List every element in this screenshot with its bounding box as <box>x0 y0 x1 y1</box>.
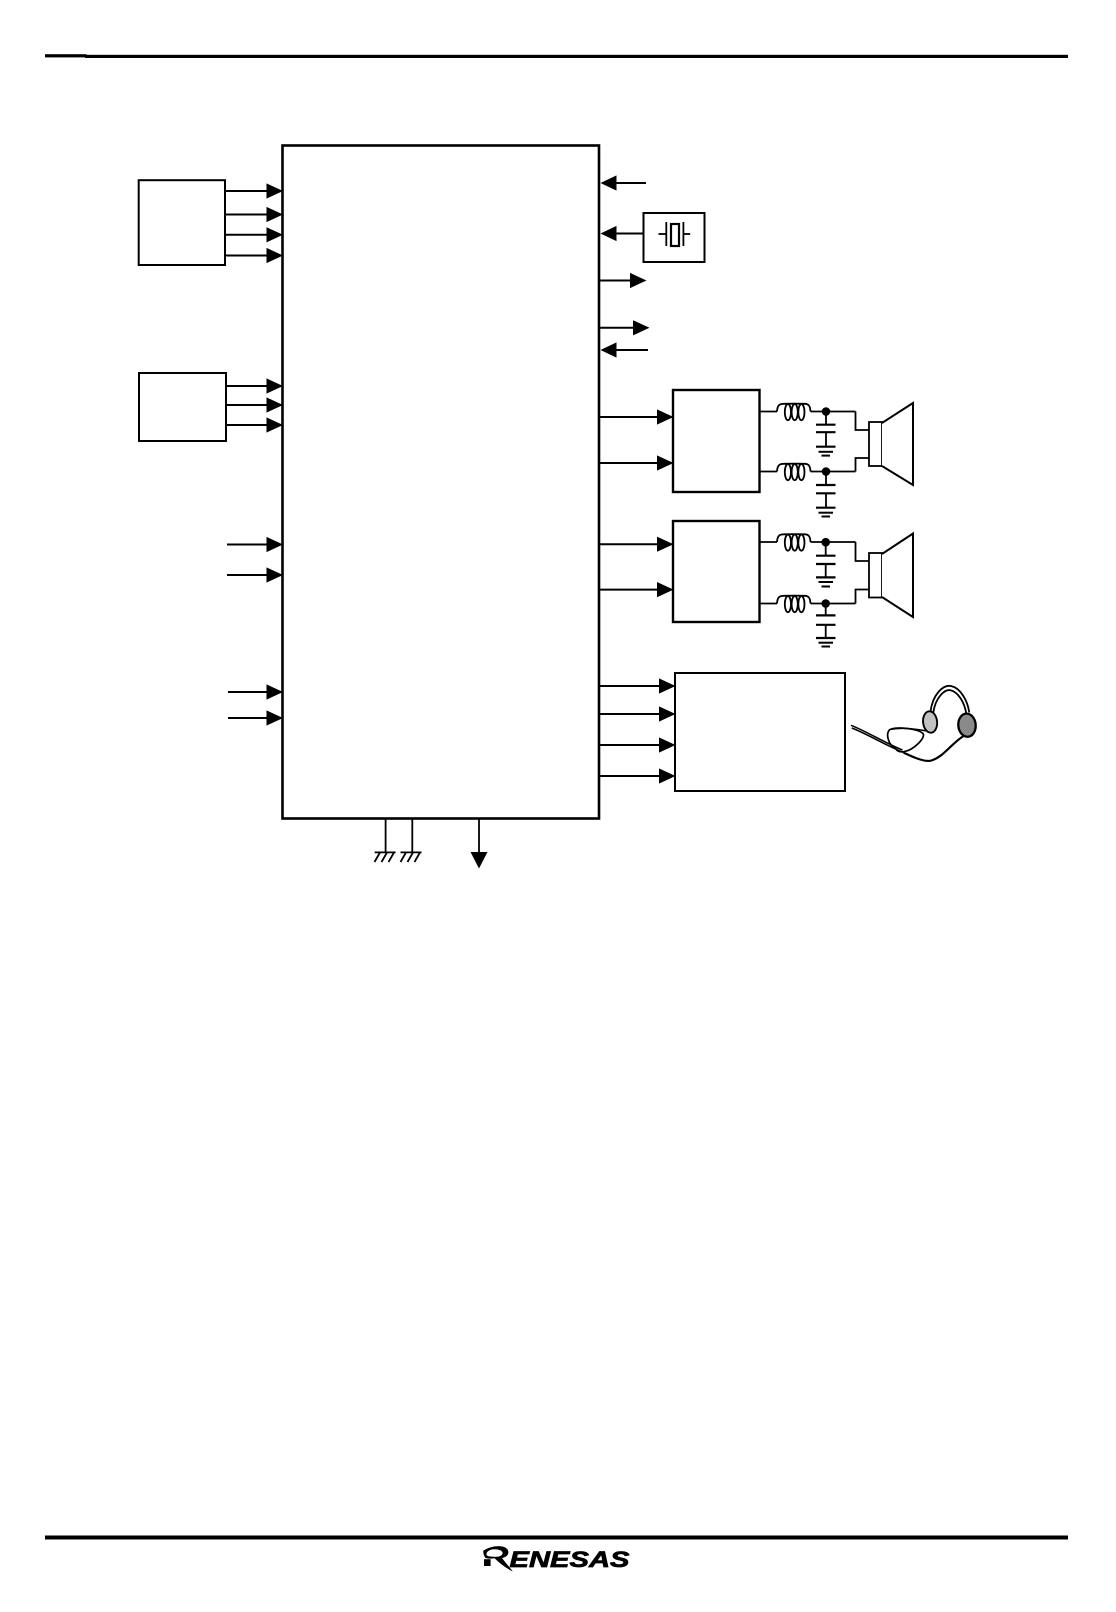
footer rule <box>45 1536 1068 1540</box>
wire: U1 to AMP1 in 1 <box>599 409 674 424</box>
speaker SP2 <box>869 534 913 618</box>
headphone icon <box>851 686 977 761</box>
wire: AMP2 out 2 <box>760 603 778 605</box>
wire: box2 to U1 pin 7 <box>226 417 283 432</box>
input box 2 (mid left) <box>139 373 226 441</box>
node N3 junction <box>821 538 830 547</box>
input arrow A4 <box>228 710 283 725</box>
cord to right ear cup <box>904 736 964 761</box>
inductor L4 <box>777 596 811 613</box>
input arrow A1 <box>227 537 283 552</box>
capacitor C1 <box>816 412 836 447</box>
capacitor C2 <box>816 472 836 508</box>
wire: L3 to node N3 <box>811 541 856 543</box>
wire: U1 to headphone amp in 1 <box>599 678 676 693</box>
wire: box2 to U1 pin 5 <box>226 378 283 393</box>
wire: node N1 to speaker SP1 + <box>856 412 870 431</box>
cord from amp (double line) <box>851 725 903 750</box>
right ear cup <box>957 713 976 738</box>
ground GND2 (chassis, under U1) <box>401 819 422 862</box>
wire: AMP1 out 1 <box>760 411 778 413</box>
ground (C3) <box>816 577 836 586</box>
output arrow right 1 <box>599 273 647 288</box>
ground (C1) <box>816 447 836 456</box>
wire: box1 to U1 pin 4 <box>225 248 283 263</box>
ground (C4) <box>816 638 836 647</box>
node N2 junction <box>822 467 831 476</box>
wire: node N2 to speaker SP1 - <box>856 458 870 472</box>
wire: box1 to U1 pin 2 <box>225 207 283 222</box>
headband (double arc) <box>931 686 970 713</box>
wire: box2 to U1 pin 6 <box>226 397 283 412</box>
wire: U1 to AMP2 in 2 <box>599 582 674 597</box>
inductor L3 <box>777 534 811 551</box>
svg-text:ENESAS: ENESAS <box>510 1547 630 1572</box>
input arrow right 3 (into U1) <box>601 342 649 357</box>
wire: U1 to headphone amp in 2 <box>599 706 676 721</box>
amplifier block AMP1 <box>673 390 760 492</box>
wire: U1 to headphone amp in 4 <box>599 768 676 783</box>
output arrow right 2 <box>599 320 650 335</box>
capacitor C3 <box>816 542 836 577</box>
headphone amp block <box>675 673 845 791</box>
wire: U1 to AMP1 in 2 <box>599 455 674 470</box>
ground GND1 (chassis, under U1) <box>375 819 396 862</box>
wire: AMP2 out 1 <box>760 541 778 543</box>
input arrow A3 <box>228 684 283 699</box>
input box 1 (top left) <box>139 180 225 265</box>
speaker SP1 <box>869 403 913 485</box>
input arrow A2 <box>227 567 283 582</box>
wire: L4 to node N4 <box>811 603 856 605</box>
wire: node N4 to speaker SP2 - <box>856 590 870 604</box>
amplifier block AMP2 <box>673 521 760 622</box>
wire: U1 to headphone amp in 3 <box>599 737 676 752</box>
header rule <box>45 54 1068 58</box>
crystal X1 box <box>644 213 705 262</box>
input arrow right top (into U1) <box>601 175 647 190</box>
wire: U1 to AMP2 in 1 <box>599 537 674 552</box>
power down arrow (under U1) <box>471 819 488 869</box>
wire: node N3 to speaker SP2 + <box>856 542 870 561</box>
wire: L2 to node N2 <box>811 471 856 473</box>
cord loop <box>888 728 924 752</box>
Renesas logo <box>483 1546 630 1572</box>
left ear cup <box>922 711 938 734</box>
ground (C2) <box>816 508 836 517</box>
wire: box1 to U1 pin 3 <box>225 227 283 242</box>
wire: AMP1 out 2 <box>760 471 778 473</box>
capacitor C4 <box>816 604 836 639</box>
IC block U1 <box>283 146 600 819</box>
node N4 junction <box>821 599 830 608</box>
wire: box1 to U1 pin 1 <box>225 183 283 198</box>
wire: crystal to U1 <box>601 226 644 241</box>
cord to left ear cup <box>892 728 929 731</box>
node N1 junction <box>822 407 831 416</box>
crystal X1 symbol <box>659 222 691 246</box>
inductor L2 <box>777 464 811 481</box>
wire: L1 to node N1 <box>811 411 856 413</box>
inductor L1 <box>777 404 811 421</box>
